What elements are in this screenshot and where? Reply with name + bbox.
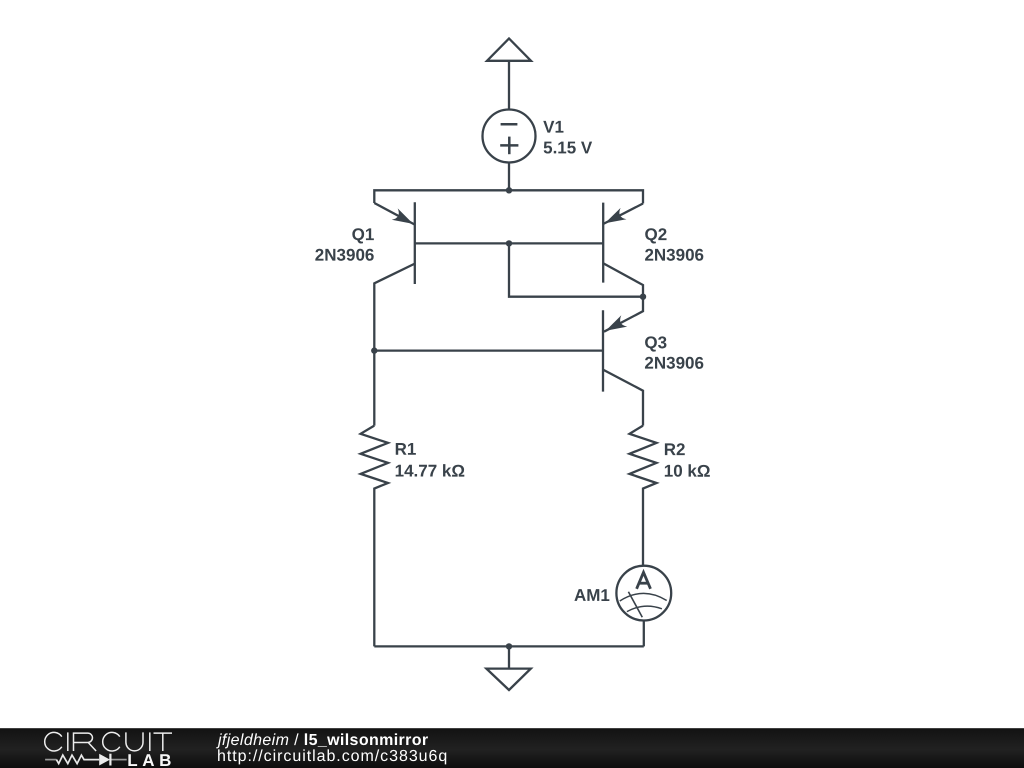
svg-text:5.15 V: 5.15 V <box>543 138 593 157</box>
svg-text:14.77 kΩ: 14.77 kΩ <box>395 462 465 481</box>
svg-text:2N3906: 2N3906 <box>644 246 704 265</box>
svg-text:Q1: Q1 <box>352 225 375 244</box>
svg-text:R1: R1 <box>395 440 417 459</box>
svg-text:Q3: Q3 <box>644 333 667 352</box>
svg-text:LAB: LAB <box>127 751 176 768</box>
svg-text:AM1: AM1 <box>574 586 610 605</box>
svg-text:2N3906: 2N3906 <box>644 354 704 373</box>
svg-text:Q2: Q2 <box>644 225 667 244</box>
svg-text:V1: V1 <box>543 118 564 137</box>
svg-text:R2: R2 <box>664 440 686 459</box>
svg-text:2N3906: 2N3906 <box>315 246 375 265</box>
svg-text:10 kΩ: 10 kΩ <box>664 462 711 481</box>
